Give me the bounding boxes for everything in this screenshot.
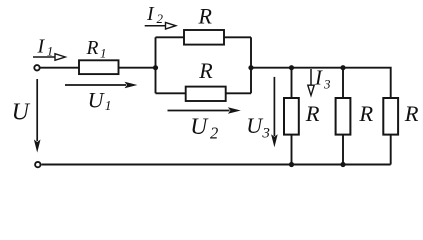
wire right parallel rail	[250, 37, 252, 93]
wire resistor R5 bottom to bottom bus	[342, 135, 344, 165]
svg-text:I: I	[37, 36, 46, 58]
svg-text:R: R	[198, 58, 213, 83]
voltage arrow U1	[65, 82, 137, 89]
terminal top-left	[34, 65, 39, 70]
wire resistor R4 bottom to bottom bus	[291, 135, 293, 165]
svg-text:U: U	[190, 114, 209, 140]
wire top main from right parallel node to top-right corner	[251, 68, 391, 98]
svg-text:I: I	[314, 66, 323, 90]
svg-text:3: 3	[323, 77, 331, 92]
wire top main from input terminal to left parallel node	[41, 67, 156, 69]
junction node top of R5	[340, 65, 345, 70]
svg-text:1: 1	[47, 43, 54, 58]
wire parallel top branch	[156, 36, 252, 38]
wire parallel bottom branch	[156, 92, 252, 94]
svg-text:U: U	[12, 99, 31, 125]
svg-text:1: 1	[105, 98, 112, 113]
junction node left of parallel pair	[153, 65, 158, 70]
voltage arrow U2	[168, 107, 241, 114]
junction node bottom of R4	[289, 162, 294, 167]
svg-text:2: 2	[157, 11, 164, 26]
voltage arrow U	[34, 79, 41, 153]
svg-text:R: R	[198, 4, 213, 29]
svg-text:3: 3	[261, 126, 270, 142]
wire left parallel rail	[155, 37, 157, 93]
wire drop to resistor R5 top	[342, 68, 344, 98]
junction node right of parallel pair	[248, 65, 253, 70]
svg-text:I: I	[146, 3, 155, 25]
resistor R5 (second right vertical)	[336, 98, 351, 135]
current arrow I2	[145, 23, 176, 30]
terminal bottom-left	[35, 162, 40, 167]
svg-text:R: R	[404, 101, 419, 126]
wire drop to resistor R4 top	[291, 68, 293, 98]
current arrow I1	[33, 54, 65, 61]
resistor R2 (top parallel branch)	[184, 30, 224, 45]
junction node top of R4	[289, 65, 294, 70]
current arrow I3	[308, 69, 314, 95]
resistor R3 (bottom parallel branch)	[186, 87, 226, 101]
junction node bottom of R5	[340, 162, 345, 167]
svg-text:U: U	[88, 87, 106, 112]
resistor R1	[79, 60, 119, 74]
svg-text:R: R	[305, 101, 320, 126]
svg-text:R: R	[358, 101, 373, 126]
svg-text:R: R	[86, 38, 99, 59]
svg-text:1: 1	[100, 46, 107, 61]
voltage arrow U3	[271, 77, 278, 147]
resistor R4 (first right vertical)	[284, 98, 299, 135]
wire resistor R6 bottom to bottom bus	[390, 135, 392, 165]
wire bottom bus	[42, 164, 391, 166]
resistor R6 (third right vertical)	[383, 98, 398, 135]
svg-text:2: 2	[210, 124, 218, 143]
